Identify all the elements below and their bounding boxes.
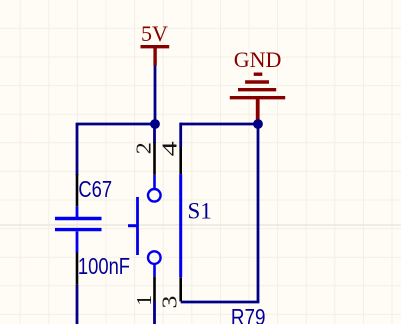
switch S1 pin 2 number	[132, 142, 156, 154]
switch S1 pin 3 number	[158, 296, 182, 309]
switch S1 internal line pin4 to pin3	[179, 174, 182, 277]
capacitor C67 bottom plate	[55, 228, 102, 231]
wire horizontal to capacitor	[76, 123, 155, 126]
ground bar 4	[230, 96, 285, 99]
power symbol 5V stem	[153, 47, 156, 66]
capacitor C67 pin1 stub	[76, 206, 79, 217]
wire below capacitor	[76, 285, 79, 324]
capacitor C67 pin2 stub	[76, 231, 79, 252]
wire 5V vertical	[154, 66, 157, 125]
darker grid line	[0, 224, 401, 226]
resistor designator R79	[231, 306, 266, 324]
switch S1 pin 1 line	[153, 276, 156, 301]
wire right vertical	[257, 124, 260, 302]
capacitor C67 pin 1 line	[76, 174, 79, 206]
svg-text:100nF: 100nF	[78, 254, 130, 279]
svg-text:1: 1	[132, 295, 156, 306]
switch S1 pin 4 line	[179, 147, 182, 174]
switch S1 pin 3 line	[179, 277, 182, 301]
switch S1 actuator bar	[136, 197, 139, 255]
switch S1 actuator stem	[128, 224, 138, 227]
junction node at GND	[253, 119, 263, 129]
power symbol 5V bar	[141, 45, 170, 48]
ground bar 3	[238, 88, 276, 91]
wire corner to pin4	[179, 123, 182, 147]
switch S1 link contact to pin1	[153, 264, 156, 276]
capacitor designator C67	[78, 177, 112, 202]
ground bar 1	[254, 72, 263, 75]
switch S1 bottom contact circle	[148, 251, 161, 264]
junction node at 5V	[150, 119, 160, 129]
capacitor C67 pin 2 line	[76, 253, 79, 285]
wire bottom horizontal	[181, 301, 260, 304]
switch S1 pin 1 number	[132, 295, 156, 306]
svg-text:GND: GND	[234, 47, 282, 72]
wire capacitor drop	[76, 124, 79, 175]
svg-text:2: 2	[132, 142, 156, 154]
capacitor value 100nF	[78, 254, 130, 279]
ground stem	[256, 98, 260, 122]
svg-text:4: 4	[158, 141, 182, 156]
svg-text:R79: R79	[231, 306, 266, 324]
wire top right horizontal	[181, 123, 258, 126]
svg-text:C67: C67	[78, 177, 112, 202]
svg-text:S1: S1	[188, 199, 212, 224]
switch S1 link pin2 to contact	[153, 175, 156, 189]
ground bar 2	[245, 80, 269, 83]
switch S1 pin 4 number	[158, 141, 182, 156]
switch S1 pin 2 line	[153, 142, 156, 174]
switch S1 top contact circle	[148, 189, 161, 202]
wire below pin1	[153, 301, 156, 324]
capacitor C67 top plate	[55, 217, 102, 220]
wire junction to pin2	[153, 124, 156, 143]
svg-text:5V: 5V	[141, 21, 168, 46]
svg-text:3: 3	[158, 296, 182, 309]
